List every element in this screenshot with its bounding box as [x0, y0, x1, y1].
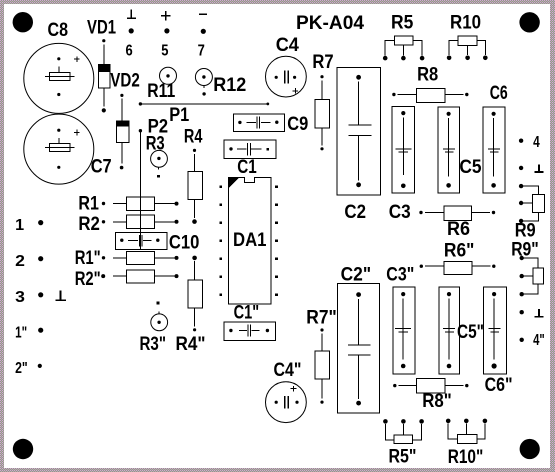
svg-text:C2": C2": [341, 263, 372, 285]
svg-text:C9: C9: [287, 113, 308, 135]
svg-text:R10: R10: [450, 12, 481, 34]
trimmer R5": [383, 419, 424, 467]
svg-text:C4: C4: [276, 34, 299, 56]
terminal 1": [15, 324, 43, 341]
mounting hole bottom-right: [520, 439, 540, 459]
svg-text:PK-A04: PK-A04: [296, 12, 364, 34]
svg-text:R1": R1": [75, 247, 101, 269]
svg-text:DA1: DA1: [233, 229, 267, 251]
svg-text:C3": C3": [386, 263, 414, 285]
terminal 1: [15, 217, 43, 234]
capacitor C2: [337, 67, 381, 223]
resistor R12: [195, 69, 246, 96]
svg-text:C1: C1: [237, 156, 257, 178]
IC DA1: [228, 176, 271, 304]
capacitor C5: [438, 107, 482, 193]
resistor R11: [147, 67, 176, 102]
svg-text:VD2: VD2: [110, 70, 140, 92]
capacitor C4": [266, 359, 307, 423]
svg-text:C2: C2: [344, 201, 366, 223]
resistor R4: [184, 126, 203, 224]
svg-text:VD1: VD1: [87, 16, 116, 38]
svg-text:R5": R5": [389, 445, 417, 467]
capacitor C10: [116, 231, 200, 253]
mounting hole bottom-left: [13, 439, 33, 459]
svg-text:7: 7: [198, 42, 205, 59]
svg-text:R7": R7": [306, 307, 337, 329]
resistor R2": [75, 268, 179, 290]
pin number 5: [161, 42, 168, 59]
ground symbol right lower: [520, 309, 544, 316]
pad plus terminal: [164, 28, 169, 33]
capacitor C6: [483, 82, 508, 193]
pad minus terminal: [201, 29, 206, 34]
trimmer R10: [447, 12, 488, 61]
pad ground terminal: [129, 28, 134, 33]
svg-text:C4": C4": [274, 359, 302, 381]
resistor R3: [146, 132, 168, 177]
diode VD2: [110, 70, 140, 170]
terminal 2": [15, 360, 42, 377]
capacitor C6": [484, 287, 513, 396]
resistor R7": [306, 307, 337, 404]
terminal plus symbol top: [161, 11, 171, 20]
capacitor C9: [233, 113, 308, 135]
ground symbol right upper: [519, 165, 544, 172]
mounting hole top-right: [519, 12, 539, 32]
capacitor C3: [389, 106, 415, 223]
svg-text:2: 2: [15, 253, 25, 270]
capacitor C1: [224, 140, 276, 178]
svg-text:R9": R9": [511, 239, 539, 261]
capacitor C4: [266, 34, 307, 97]
wire P2 vertical: [139, 131, 141, 250]
mounting hole top-left: [13, 12, 33, 32]
svg-text:P1: P1: [169, 104, 189, 126]
diode VD1: [87, 16, 116, 112]
node P2: [139, 116, 169, 138]
svg-text:R2": R2": [75, 268, 101, 290]
svg-text:R4": R4": [176, 333, 206, 355]
trimmer R5: [383, 11, 425, 60]
svg-text:R10": R10": [448, 446, 484, 468]
svg-text:C5: C5: [459, 156, 481, 178]
svg-text:R11: R11: [147, 80, 175, 102]
svg-text:2": 2": [15, 360, 28, 377]
capacitor C7: [24, 114, 112, 184]
svg-text:R6": R6": [444, 239, 475, 261]
terminal 4: [519, 134, 540, 151]
svg-text:R8: R8: [417, 64, 438, 86]
svg-text:5: 5: [161, 42, 168, 59]
capacitor C5": [439, 287, 484, 374]
resistor R8": [393, 379, 468, 412]
svg-text:C8: C8: [48, 19, 69, 41]
svg-text:R2: R2: [78, 213, 100, 235]
terminal minus symbol top: [199, 13, 207, 15]
svg-text:R8": R8": [422, 390, 452, 412]
resistor R6": [420, 239, 496, 274]
board name PK-A04: [296, 12, 364, 34]
svg-text:R6: R6: [447, 218, 470, 240]
svg-text:C5": C5": [457, 321, 484, 343]
capacitor C1": [224, 302, 275, 341]
svg-text:C10: C10: [169, 231, 200, 253]
svg-text:R3": R3": [140, 333, 167, 355]
svg-text:C1": C1": [234, 302, 260, 324]
resistor R6: [419, 206, 495, 240]
resistor R2: [78, 213, 178, 235]
ground symbol left: [55, 290, 66, 300]
resistor R7: [312, 51, 333, 151]
svg-text:C7: C7: [91, 155, 112, 177]
svg-text:C6: C6: [490, 82, 508, 104]
resistor R1": [75, 247, 179, 269]
svg-text:R7: R7: [312, 51, 333, 73]
DA1 pins left: [219, 185, 222, 296]
svg-text:3: 3: [15, 289, 25, 306]
pin number 6: [126, 42, 133, 59]
capacitor C2": [338, 263, 380, 413]
resistor R9: [515, 184, 545, 242]
resistor R4": [176, 256, 206, 355]
capacitor C3": [386, 263, 415, 373]
svg-text:R1: R1: [78, 192, 99, 214]
terminal 3: [15, 289, 43, 306]
resistor R1: [78, 192, 178, 214]
svg-text:4": 4": [533, 332, 545, 349]
svg-text:1": 1": [15, 324, 27, 341]
svg-text:R5: R5: [391, 11, 413, 33]
svg-text:6: 6: [126, 42, 133, 59]
node P1: [139, 102, 190, 126]
trimmer R10": [446, 419, 487, 468]
resistor R8: [392, 64, 468, 103]
DA1 pins right: [275, 185, 278, 296]
resistor R3": [140, 301, 168, 355]
svg-text:4: 4: [533, 134, 540, 151]
svg-text:R4: R4: [184, 126, 203, 148]
pin number 7: [198, 42, 205, 59]
terminal 4": [520, 332, 545, 349]
svg-text:1: 1: [15, 217, 24, 234]
terminal ground symbol top: [127, 10, 136, 19]
capacitor C8: [24, 19, 94, 113]
svg-text:R12: R12: [213, 74, 246, 96]
resistor R9": [511, 239, 544, 297]
svg-text:C3: C3: [389, 201, 411, 223]
wire P1 horizontal: [140, 103, 269, 106]
svg-text:C6": C6": [485, 374, 513, 396]
terminal 2: [15, 253, 43, 270]
